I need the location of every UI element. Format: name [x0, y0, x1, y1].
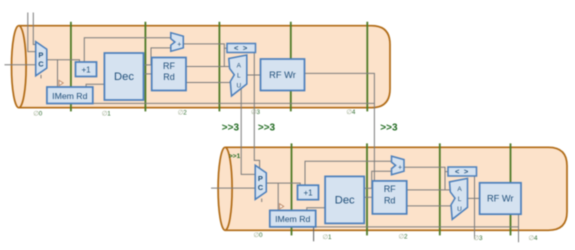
svg-text:∅3: ∅3	[251, 109, 261, 116]
wire: adder P1 output branch down to ALU P1 input	[444, 172, 446, 190]
wire: +1 P1 output up and over to adder P1	[305, 161, 392, 185]
svg-text:IMem Rd: IMem Rd	[52, 91, 87, 101]
adder P1	[392, 156, 405, 175]
wire: Dec P1 to RF Rd P1 lower	[364, 196, 372, 198]
wire: instruction bus along bottom of pipeline 0	[93, 102, 375, 104]
+1 incrementer P0	[76, 62, 97, 77]
PC mux P1	[255, 165, 266, 199]
IMem Rd box P0	[47, 87, 93, 104]
svg-text:>>1: >>1	[229, 153, 241, 160]
RF Wr box P1	[480, 183, 521, 214]
pipeline 1 stage clock line phi3/phi4 boundary	[510, 143, 512, 235]
Dec box P1	[325, 176, 364, 223]
svg-text:Dec: Dec	[114, 71, 134, 83]
svg-text:∅4: ∅4	[346, 109, 356, 116]
pipeline 0 stage clock line phi2/phi3 boundary	[218, 22, 220, 112]
svg-text:A: A	[237, 63, 242, 70]
wire: adder P0 output branch down to ALU P0 input	[223, 48, 225, 66]
svg-text:>>3: >>3	[380, 122, 398, 133]
wire: comparator P0 result down to PC mux P1 top	[254, 53, 259, 169]
svg-text:Rd: Rd	[384, 196, 396, 206]
wire: IMem Rd P1 output to Dec P1	[307, 208, 325, 212]
comparator box P0	[227, 44, 256, 53]
svg-text:IMem Rd: IMem Rd	[275, 214, 310, 224]
clock wedge marker P1	[280, 204, 284, 209]
svg-text:P: P	[38, 51, 43, 60]
wire: RF Rd P0 to ALU P0 lower input	[186, 82, 231, 84]
svg-text:RF Wr: RF Wr	[269, 70, 296, 80]
svg-text:Dec: Dec	[335, 195, 355, 207]
RF Wr box P0	[261, 59, 305, 91]
wire: PC P0 output branch down to IMem Rd P0	[57, 60, 59, 87]
svg-text:>>3: >>3	[222, 123, 240, 134]
pipeline 1 cylinder left end cap	[218, 147, 232, 230]
svg-text:L: L	[237, 73, 241, 80]
svg-text:Rd: Rd	[163, 72, 175, 82]
PC mux P0	[36, 42, 47, 76]
wire: RF Rd P1 to ALU P1 lower input	[407, 205, 452, 207]
IMem Rd box P1	[270, 210, 316, 227]
pipeline 0 stage clock line phi1/phi2 boundary	[144, 22, 146, 112]
pipeline 0 stage clock line phi4 end boundary	[366, 22, 368, 112]
ALU P0	[229, 55, 247, 96]
ALU P1	[450, 178, 468, 219]
svg-text:∅2: ∅2	[398, 234, 408, 241]
wire: incoming branch target from previous pipeline into PC mux P0 top	[33, 13, 38, 47]
wire: Dec P0 to RF Rd P0 upper	[144, 64, 152, 66]
wire: left cap input into PC mux P1	[211, 187, 255, 189]
wire: PC P1 output branch down to IMem Rd P1	[277, 183, 279, 210]
wire: RF Rd P0 to ALU P0 upper input	[186, 66, 229, 68]
svg-text:< >: < >	[455, 167, 469, 176]
wire: PC P1 output to +1 incrementer	[266, 183, 300, 185]
wire: IMem bus P1 down to next pipeline	[313, 227, 315, 241]
svg-text:< >: < >	[234, 44, 248, 53]
wire: adder P0 output to comparator P0	[183, 44, 227, 48]
wire: IMem Rd P0 output to Dec P0	[86, 84, 104, 88]
svg-text:C: C	[38, 60, 44, 69]
svg-text:∅2: ∅2	[178, 109, 188, 116]
svg-text:∅1: ∅1	[322, 234, 332, 241]
wire: comparator P1 result down to next pipeline	[474, 176, 476, 239]
pipeline 0 stage clock line phi0/phi1 boundary	[70, 22, 72, 112]
RF Rd box P0	[152, 58, 186, 91]
wire: adder P0 lower input riser from Dec output bus	[151, 48, 171, 65]
wire: PC mux P1 select stub	[261, 199, 263, 203]
wire: left cap input into PC mux P0	[5, 64, 36, 66]
pipeline 0 cylinder body	[19, 26, 390, 108]
svg-text:∅0: ∅0	[253, 232, 263, 239]
wire: PC P0 output to +1 incrementer	[47, 60, 80, 62]
svg-text:∅3: ∅3	[473, 235, 483, 242]
svg-text:A: A	[457, 186, 462, 193]
svg-text:C: C	[258, 183, 264, 192]
svg-text:>>3: >>3	[258, 123, 276, 134]
svg-text:∅4: ∅4	[528, 235, 538, 242]
wire: Dec P0 to RF Rd P0 lower	[144, 73, 152, 75]
wire: adder P1 lower input riser from Dec output bus	[372, 171, 392, 188]
svg-text:+1: +1	[303, 189, 313, 198]
svg-text:RF Wr: RF Wr	[487, 194, 514, 204]
wire: PC mux P0 select stub	[40, 75, 42, 79]
wire: adder P1 output to comparator P1	[404, 167, 448, 171]
pipeline 0 stage clock line phi3/phi4 boundary	[290, 22, 292, 112]
svg-text:∅0: ∅0	[33, 110, 43, 117]
wire: Dec P1 to RF Rd P1 upper	[364, 187, 372, 189]
svg-text:U: U	[236, 83, 241, 90]
RF Rd box P1	[372, 181, 406, 214]
Dec box P0	[104, 53, 143, 100]
wire: +1 P0 output up and over to adder P0	[84, 38, 171, 62]
wire: RF Wr P1 writeback down to next pipeline	[518, 214, 520, 242]
clock wedge marker P0	[59, 80, 63, 85]
adder P0	[171, 33, 184, 52]
svg-text:U: U	[457, 206, 462, 213]
pipeline 1 stage clock line phi2/phi3 boundary	[439, 143, 441, 235]
wire: ALU P0 output to RF Wr P0	[247, 74, 261, 76]
svg-text:+: +	[177, 41, 181, 48]
svg-text:L: L	[458, 196, 462, 203]
svg-text:+: +	[398, 165, 402, 172]
comparator box P1	[448, 167, 477, 176]
wire: instruction bus along bottom of pipeline 1	[312, 226, 518, 228]
wire: incoming next-PC from previous pipeline into PC mux P0 left	[28, 13, 36, 52]
svg-text:RF: RF	[384, 184, 396, 194]
wire: ALU P1 output to RF Wr P1	[468, 197, 480, 199]
svg-text:+1: +1	[81, 65, 91, 74]
pipeline 1 stage clock line phi1/phi2 boundary	[366, 143, 368, 235]
svg-text:∅1: ∅1	[102, 110, 112, 117]
+1 incrementer P1	[298, 185, 319, 200]
svg-text:P: P	[258, 174, 263, 183]
pipeline 1 cylinder body	[225, 147, 567, 230]
pipeline 1 stage clock line phi0/phi1 boundary	[291, 143, 293, 235]
wire: ALU P0 result down to PC mux P1 left	[241, 89, 255, 175]
wire: RF Wr P0 writeback down to RF Rd P1	[305, 73, 375, 180]
wire: RF Rd P1 to ALU P1 upper input	[407, 189, 450, 191]
pipeline 0 cylinder left end cap	[11, 26, 26, 108]
svg-text:RF: RF	[163, 61, 175, 71]
